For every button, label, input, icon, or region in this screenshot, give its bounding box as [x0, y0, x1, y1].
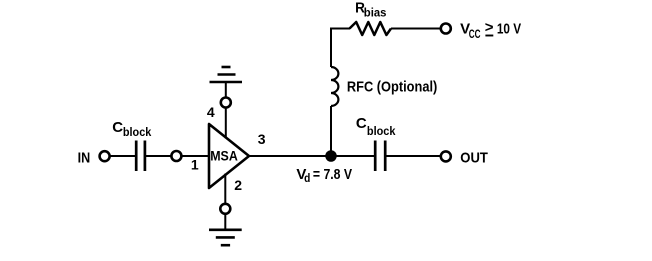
vertical wire node to inductor	[330, 106, 332, 156]
ground bottom	[209, 229, 242, 232]
ground top	[210, 81, 243, 84]
svg-text:1: 1	[191, 157, 199, 173]
wire C1 to junction	[145, 155, 171, 157]
svg-text:MSA: MSA	[210, 149, 238, 164]
svg-text:3: 3	[258, 131, 266, 147]
svg-text:OUT: OUT	[460, 149, 488, 166]
svg-text:RFC (Optional): RFC (Optional)	[347, 78, 437, 95]
resistor Rbias zigzag	[350, 22, 392, 35]
pin 2 wire	[224, 174, 226, 204]
svg-text:= 7.8 V: = 7.8 V	[313, 166, 352, 183]
svg-text:block: block	[123, 125, 152, 139]
svg-text:10 V: 10 V	[497, 20, 521, 37]
pin 2 circle	[220, 204, 230, 214]
pin 4 wire	[225, 108, 227, 138]
terminal IN	[100, 151, 110, 161]
output wire pin3 to C2	[248, 155, 376, 157]
wire IN to C1	[110, 155, 136, 157]
svg-text:CC: CC	[469, 27, 481, 41]
pin 4 circle	[221, 98, 231, 108]
wire junction to pin 1	[182, 155, 209, 157]
wire C2 to OUT	[386, 155, 442, 157]
svg-text:2: 2	[234, 177, 242, 193]
node Vd junction dot	[325, 150, 337, 162]
wire pin2 circle to ground	[224, 214, 226, 230]
op-amp U1 MSA triangle	[209, 124, 249, 188]
svg-text:4: 4	[207, 104, 215, 120]
vertical wire inductor to top rail	[331, 29, 350, 68]
svg-text:bias: bias	[364, 6, 387, 20]
svg-text:C: C	[356, 115, 367, 132]
inductor RFC coil	[331, 67, 338, 106]
capacitor C2 block	[374, 141, 377, 172]
capacitor C1 block	[135, 141, 138, 172]
terminal OUT	[441, 151, 451, 161]
svg-text:d: d	[304, 171, 310, 185]
terminal Vcc	[441, 24, 451, 34]
svg-text:>: >	[485, 19, 494, 36]
wire resistor to Vcc	[391, 28, 441, 30]
junction terminal circle	[171, 151, 181, 161]
svg-text:block: block	[367, 124, 396, 138]
wire pin4 circle to ground	[225, 82, 227, 97]
svg-text:IN: IN	[78, 150, 91, 167]
svg-text:C: C	[112, 119, 123, 136]
